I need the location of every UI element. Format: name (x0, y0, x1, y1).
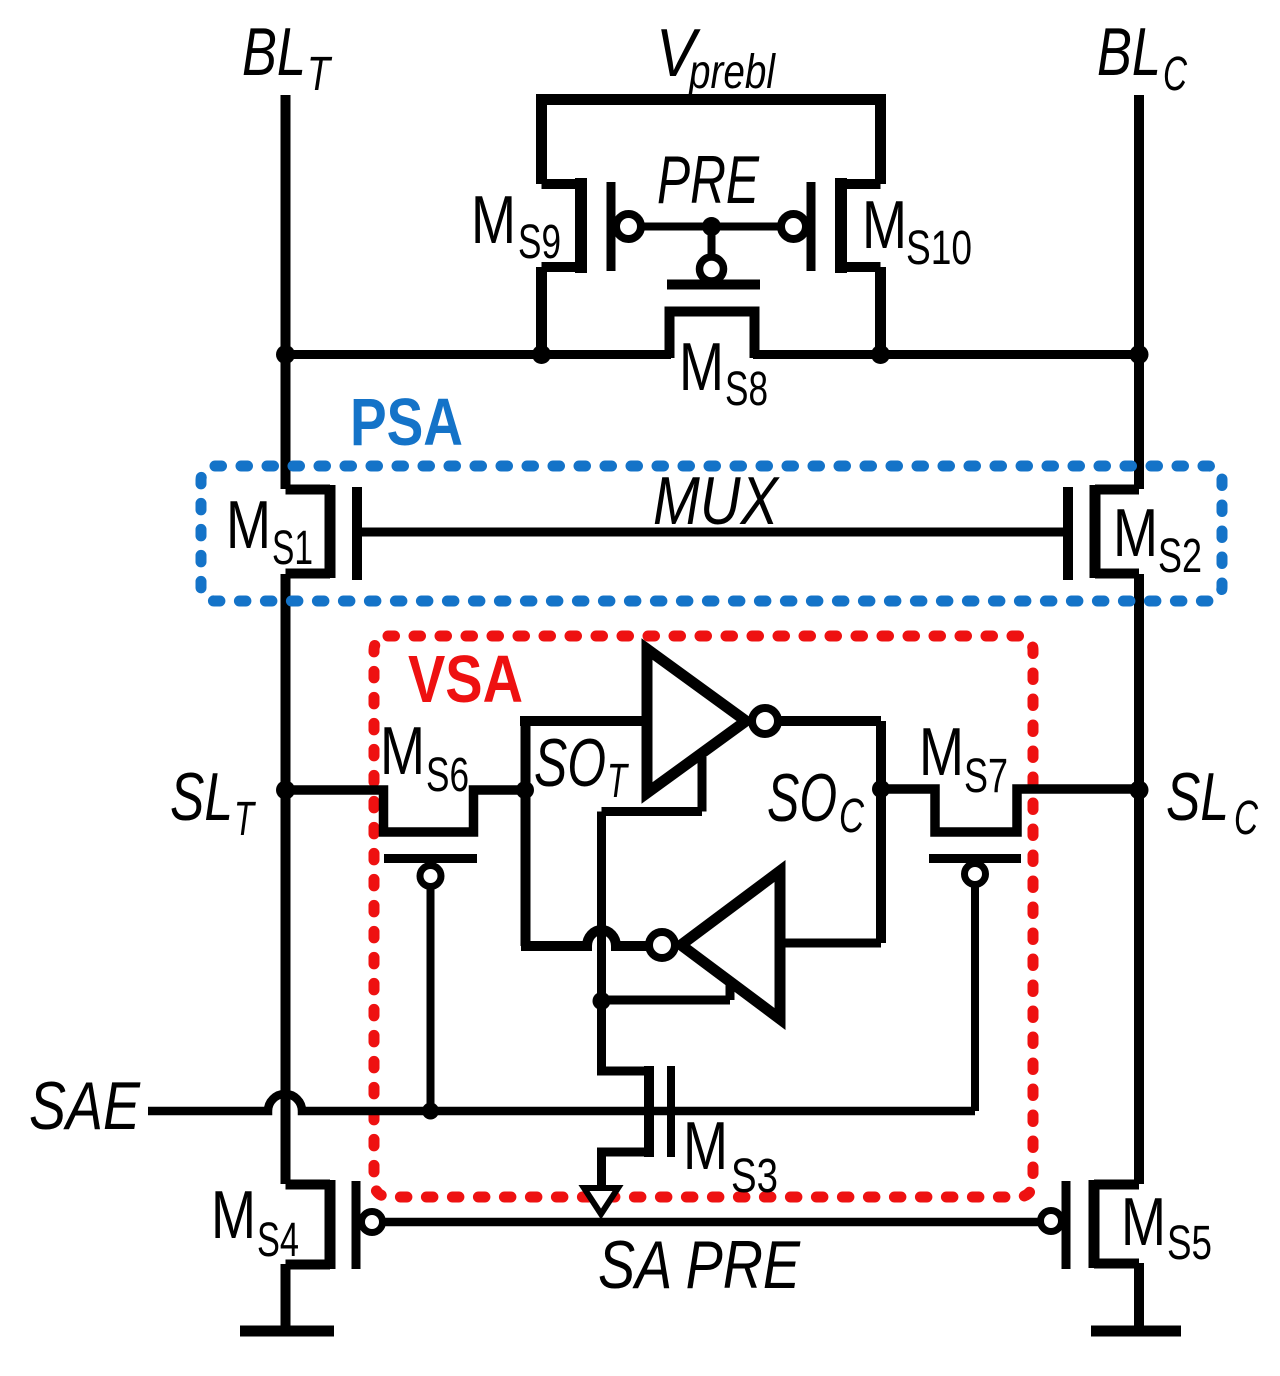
node BL_T label (242, 14, 333, 101)
svg-text:prebl: prebl (687, 46, 776, 99)
svg-text:M: M (226, 487, 271, 563)
transistor M_S9 (542, 178, 642, 358)
transistor M_S2 label (1113, 495, 1202, 583)
svg-text:SA PRE: SA PRE (598, 1227, 801, 1303)
svg-text:C: C (1234, 792, 1258, 845)
svg-text:M: M (211, 1177, 256, 1253)
svg-text:M: M (1113, 495, 1158, 571)
svg-text:SO: SO (767, 760, 837, 836)
transistor M_S8 channel (670, 312, 755, 359)
wire PRE gate line (640, 223, 783, 231)
svg-text:VSA: VSA (408, 642, 523, 717)
wire M_S4 source to ground (281, 1264, 291, 1331)
inverter U2 output bubble (649, 932, 675, 958)
wire tail vertical to M_S3 (597, 812, 606, 1002)
transistor M_S1 label (226, 487, 313, 575)
wire U2 output to SO_T vertical with hop (521, 930, 650, 946)
VSA dashed box (374, 636, 1033, 1197)
transistor M_S9 label (471, 182, 561, 269)
svg-text:M: M (679, 329, 724, 405)
svg-text:M: M (862, 187, 907, 263)
wire BL bridge left (BL_T to M_S8) (285, 350, 671, 359)
svg-text:M: M (1121, 1184, 1166, 1260)
transistor M_S4 label (211, 1177, 299, 1267)
junction SL_C (1130, 781, 1149, 800)
ground (right) (1091, 1326, 1181, 1337)
svg-text:M: M (683, 1108, 728, 1184)
wire SA PRE gate line (383, 1218, 1040, 1227)
junction M_S9 drain / bridge (532, 345, 551, 364)
svg-text:SO: SO (534, 725, 606, 801)
wire U2 tail stub (726, 983, 735, 1000)
wire inverter tail horizontal (602, 807, 703, 816)
junction PRE center (702, 217, 721, 236)
transistor M_S10 label (862, 187, 972, 275)
inverter U1 output bubble (752, 708, 778, 734)
ground (left) (240, 1326, 334, 1337)
svg-text:BL: BL (242, 14, 306, 90)
transistor M_S4 (286, 1180, 383, 1269)
wire V_prebl rail (536, 94, 886, 105)
node SO_C label (767, 760, 864, 843)
wire BL_T vertical (281, 95, 291, 1184)
wire BL bridge right (M_S8 to BL_C) (753, 350, 1139, 359)
transistor M_S8 gate bubble (700, 257, 724, 281)
transistor M_S5 (1041, 1180, 1140, 1269)
wire M_S5 source to ground (1134, 1263, 1144, 1331)
svg-text:S8: S8 (725, 363, 768, 416)
arrow to SA PRE (open triangle) (584, 1188, 618, 1214)
inverter U1 (upper) (647, 649, 746, 793)
node SL_C label (1166, 759, 1258, 845)
junction SAE / M_S6 gate (422, 1103, 439, 1120)
junction SO_C (872, 780, 890, 798)
wire U2 input from SO_C vertical (780, 939, 881, 948)
transistor M_S8 label (679, 329, 768, 416)
svg-text:S1: S1 (272, 522, 313, 575)
transistor M_S5 label (1121, 1184, 1212, 1270)
wire BL_C vertical (1134, 95, 1144, 1184)
transistor M_S7 label (919, 714, 1008, 803)
node SO_T label (534, 725, 630, 808)
junction SL_T (276, 781, 295, 800)
svg-text:M: M (919, 714, 964, 790)
junction BL_C / bridge (1130, 345, 1149, 364)
svg-text:M: M (471, 182, 516, 258)
svg-text:S9: S9 (518, 216, 561, 269)
inverter U2 (lower) (681, 871, 780, 1019)
svg-text:M: M (380, 713, 425, 789)
transistor M_S6 label (380, 713, 469, 802)
svg-text:S3: S3 (731, 1150, 778, 1203)
svg-text:C: C (839, 790, 864, 843)
transistor M_S3 label (683, 1108, 778, 1203)
wire PRE to M_S8 gate (708, 227, 716, 258)
wire V_prebl right drop (875, 99, 886, 184)
transistor M_S10 (781, 178, 881, 358)
transistor M_S6 (286, 790, 525, 1111)
wire SO_T vertical (521, 716, 531, 946)
svg-text:S5: S5 (1167, 1217, 1212, 1270)
node SL_T label (170, 759, 257, 846)
svg-text:S6: S6 (426, 749, 469, 802)
junction tail node (593, 992, 611, 1010)
transistor M_S8 gate bar (667, 280, 760, 290)
node BL_C label (1097, 14, 1187, 101)
wire SAE with hop over BL_T (148, 1094, 975, 1111)
svg-text:SL: SL (170, 759, 233, 835)
svg-text:S2: S2 (1158, 530, 1202, 583)
junction SO_T (516, 781, 534, 799)
svg-text:T: T (307, 48, 333, 101)
svg-text:BL: BL (1097, 14, 1161, 90)
svg-text:SAE: SAE (29, 1068, 141, 1144)
node V_prebl label (656, 15, 776, 99)
wire U1 tail stub (698, 757, 707, 812)
svg-text:MUX: MUX (653, 463, 780, 539)
svg-text:SL: SL (1166, 759, 1229, 835)
wire U1 output to SO_C (778, 716, 881, 726)
PSA dashed box (201, 466, 1222, 601)
wire SO_T to inverter U1 input (520, 716, 643, 726)
svg-text:C: C (1163, 48, 1187, 101)
svg-text:T: T (607, 755, 630, 808)
transistor M_S3 (602, 1001, 672, 1188)
transistor M_S7 (881, 789, 1139, 1111)
transistor M_S2 (1068, 485, 1139, 580)
transistor M_S1 (286, 485, 358, 580)
svg-text:T: T (234, 793, 257, 846)
svg-text:PSA: PSA (350, 385, 463, 460)
wire V_prebl left drop (536, 99, 547, 184)
svg-text:S4: S4 (257, 1214, 299, 1267)
wire SO_C vertical (876, 721, 886, 943)
svg-text:S10: S10 (906, 222, 972, 275)
wire U2 tail horizontal (602, 996, 731, 1005)
wire MUX gate line (362, 528, 1063, 537)
svg-text:PRE: PRE (657, 142, 759, 218)
junction M_S10 drain / bridge (871, 345, 890, 364)
junction BL_T / bridge (276, 345, 295, 364)
svg-text:S7: S7 (964, 750, 1008, 803)
